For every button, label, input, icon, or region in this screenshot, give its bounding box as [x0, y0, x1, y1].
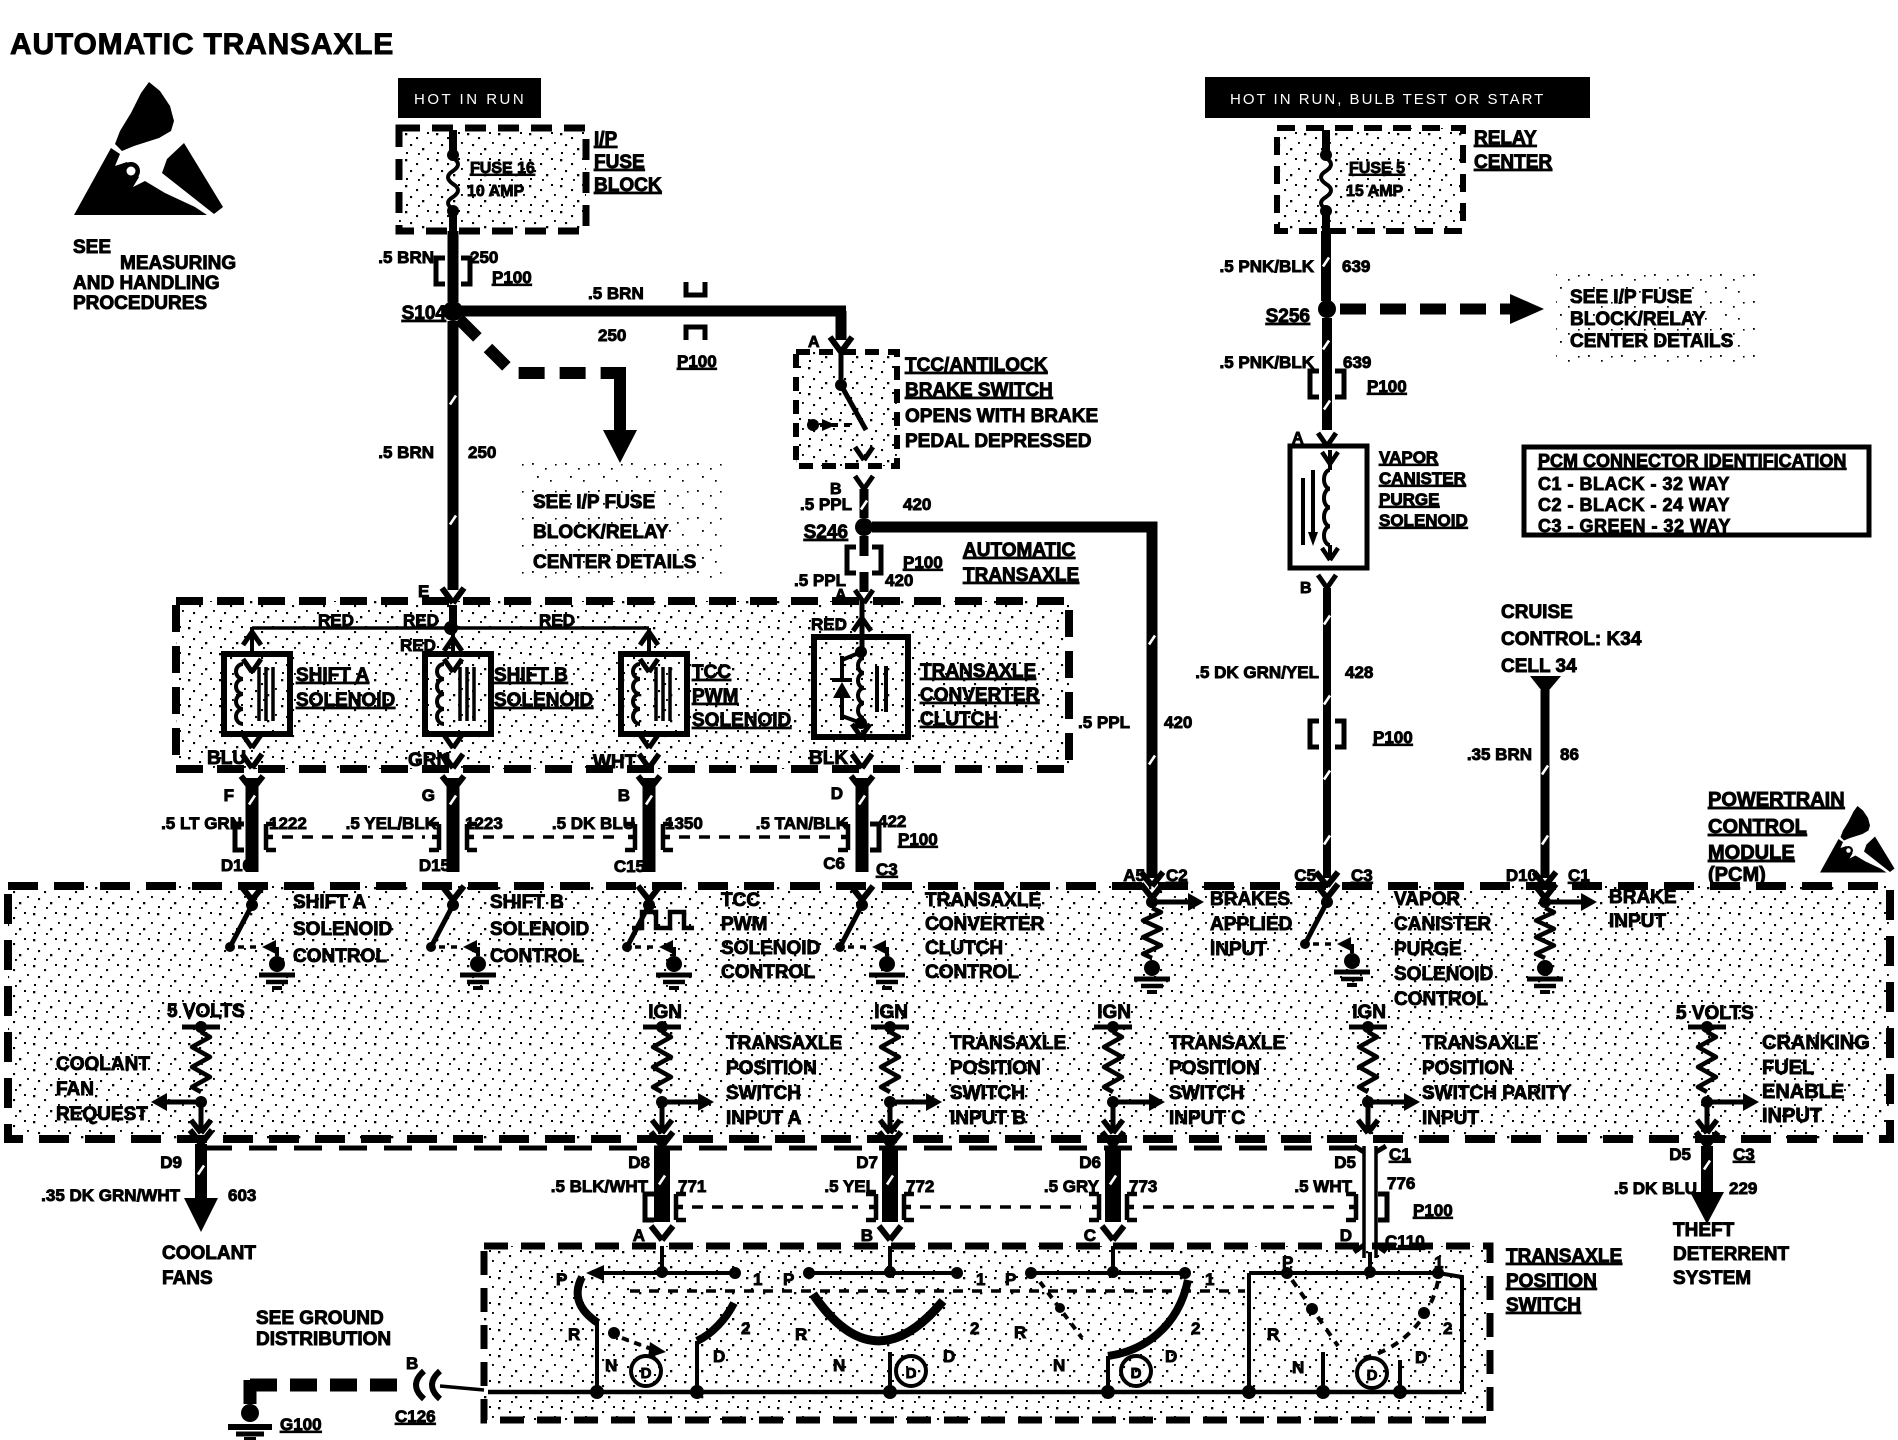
- svg-text:MEASURING: MEASURING: [120, 253, 236, 274]
- svg-text:TRANSAXLE: TRANSAXLE: [925, 890, 1041, 911]
- svg-text:OPENS WITH BRAKE: OPENS WITH BRAKE: [905, 406, 1098, 427]
- svg-text:CELL 34: CELL 34: [1501, 656, 1577, 677]
- svg-text:FUSE: FUSE: [594, 152, 645, 173]
- svg-text:PWM: PWM: [692, 686, 738, 707]
- svg-text:C1: C1: [1389, 1145, 1411, 1164]
- heavy dashed ground wire: [244, 1380, 257, 1404]
- svg-text:CONTROL: K34: CONTROL: K34: [1501, 629, 1642, 650]
- svg-text:1: 1: [1205, 1270, 1214, 1289]
- svg-text:.5 PNK/BLK: .5 PNK/BLK: [1220, 353, 1315, 372]
- svg-text:N: N: [1053, 1356, 1065, 1375]
- svg-text:603: 603: [228, 1186, 256, 1205]
- svg-text:SYSTEM: SYSTEM: [1673, 1268, 1751, 1289]
- svg-text:250: 250: [468, 443, 496, 462]
- svg-text:B: B: [1300, 580, 1312, 597]
- PCM connector identification table: [1524, 447, 1869, 535]
- svg-text:SWITCH: SWITCH: [1169, 1083, 1244, 1104]
- svg-text:N: N: [833, 1356, 845, 1375]
- svg-text:F: F: [224, 786, 234, 805]
- power label: HOT IN RUN: [398, 78, 541, 118]
- svg-text:D5: D5: [1669, 1145, 1691, 1164]
- PCM: brakes applied input: [1141, 884, 1163, 898]
- svg-text:.5 DK BLU: .5 DK BLU: [552, 814, 635, 833]
- svg-text:5 VOLTS: 5 VOLTS: [1676, 1003, 1754, 1024]
- svg-text:PCM CONNECTOR IDENTIFICATION: PCM CONNECTOR IDENTIFICATION: [1538, 451, 1846, 471]
- svg-text:SWITCH: SWITCH: [1506, 1295, 1581, 1316]
- scan artifacts: [1323, 258, 1329, 267]
- svg-text:CONTROL: CONTROL: [1708, 816, 1807, 838]
- svg-text:639: 639: [1343, 353, 1371, 372]
- svg-text:SWITCH: SWITCH: [950, 1083, 1025, 1104]
- ESD symbol small: [1820, 806, 1895, 873]
- svg-text:CANISTER: CANISTER: [1379, 469, 1466, 488]
- second dashed boundary line: [204, 1146, 1356, 1151]
- svg-text:SEE GROUND: SEE GROUND: [256, 1308, 384, 1329]
- svg-text:PWM: PWM: [721, 914, 767, 935]
- svg-text:P100: P100: [903, 553, 943, 572]
- svg-text:250: 250: [470, 248, 498, 267]
- svg-text:P100: P100: [492, 268, 532, 287]
- svg-text:FAN: FAN: [56, 1079, 94, 1100]
- svg-text:C15: C15: [614, 857, 645, 876]
- svg-text:10 AMP: 10 AMP: [467, 183, 525, 200]
- connector C126: [416, 1371, 424, 1399]
- svg-text:D: D: [1131, 1365, 1142, 1382]
- svg-text:AND HANDLING: AND HANDLING: [73, 273, 220, 294]
- svg-text:.35 BRN: .35 BRN: [1467, 745, 1532, 764]
- position switch contact set C: [1111, 1246, 1115, 1272]
- svg-text:P100: P100: [1367, 377, 1407, 396]
- svg-text:FANS: FANS: [162, 1268, 213, 1289]
- transaxle position switch box: [484, 1246, 1490, 1420]
- svg-text:D9: D9: [160, 1153, 182, 1172]
- svg-text:C: C: [1084, 1226, 1096, 1245]
- PCM: vapor canister purge solenoid control: [1316, 884, 1338, 898]
- svg-text:SOLENOID: SOLENOID: [1379, 511, 1468, 530]
- svg-text:428: 428: [1345, 663, 1373, 682]
- svg-text:CONVERTER: CONVERTER: [925, 914, 1045, 935]
- svg-text:C6: C6: [823, 854, 845, 873]
- svg-text:C1 - BLACK - 32 WAY: C1 - BLACK - 32 WAY: [1538, 474, 1730, 494]
- svg-text:D: D: [1165, 1347, 1177, 1366]
- svg-text:P: P: [1005, 1270, 1016, 1289]
- svg-text:VAPOR: VAPOR: [1379, 448, 1438, 467]
- svg-text:TCC/ANTILOCK: TCC/ANTILOCK: [905, 355, 1048, 376]
- svg-text:POWERTRAIN: POWERTRAIN: [1708, 789, 1845, 811]
- svg-text:INPUT B: INPUT B: [950, 1108, 1026, 1129]
- ESD warning symbol: [74, 82, 223, 215]
- svg-text:BRAKE SWITCH: BRAKE SWITCH: [905, 380, 1053, 401]
- svg-text:C126: C126: [395, 1407, 436, 1426]
- svg-text:APPLIED: APPLIED: [1210, 914, 1292, 935]
- svg-text:TRANSAXLE: TRANSAXLE: [920, 661, 1036, 682]
- svg-text:D5: D5: [1334, 1153, 1356, 1172]
- svg-text:SWITCH: SWITCH: [726, 1083, 801, 1104]
- svg-text:SOLENOID: SOLENOID: [692, 710, 791, 731]
- svg-text:D: D: [1340, 1226, 1352, 1245]
- svg-text:SHIFT A: SHIFT A: [293, 892, 366, 913]
- svg-text:INPUT: INPUT: [1762, 1105, 1822, 1127]
- svg-text:G100: G100: [280, 1415, 322, 1434]
- svg-text:PROCEDURES: PROCEDURES: [73, 293, 207, 314]
- svg-text:TRANSAXLE: TRANSAXLE: [1506, 1246, 1622, 1267]
- wire .5 PNK/BLK 639: [1321, 231, 1331, 301]
- svg-text:DETERRENT: DETERRENT: [1673, 1244, 1790, 1265]
- svg-text:MODULE: MODULE: [1708, 842, 1795, 864]
- svg-text:2: 2: [970, 1319, 979, 1338]
- splice S256: [1318, 300, 1336, 318]
- svg-text:CRANKING: CRANKING: [1762, 1032, 1870, 1054]
- svg-text:2: 2: [1443, 1319, 1452, 1338]
- svg-text:D: D: [1367, 1367, 1378, 1384]
- wire corner down to brake switch A: [836, 311, 847, 340]
- svg-text:2: 2: [1191, 1319, 1200, 1338]
- svg-text:CONTROL: CONTROL: [721, 962, 815, 983]
- svg-text:IGN: IGN: [648, 1002, 682, 1023]
- svg-text:HOT IN RUN: HOT IN RUN: [414, 91, 526, 108]
- relay center box: [1277, 128, 1463, 231]
- powertrain control module box: [8, 886, 1890, 1139]
- dashed arrow to see details note: [1340, 304, 1512, 315]
- svg-text:D7: D7: [856, 1153, 878, 1172]
- svg-text:1: 1: [1434, 1253, 1443, 1272]
- svg-text:BLK: BLK: [809, 748, 848, 769]
- svg-text:INPUT A: INPUT A: [726, 1108, 802, 1129]
- fuse 16, 10 amp: [449, 130, 457, 154]
- PCM: shift A solenoid control: [241, 886, 263, 900]
- svg-text:CANISTER: CANISTER: [1394, 914, 1491, 935]
- svg-text:COOLANT: COOLANT: [162, 1243, 256, 1264]
- svg-text:D6: D6: [1079, 1153, 1101, 1172]
- svg-text:TRANSAXLE: TRANSAXLE: [963, 565, 1079, 586]
- svg-text:S256: S256: [1266, 306, 1310, 327]
- svg-text:2: 2: [741, 1319, 750, 1338]
- svg-text:420: 420: [1164, 713, 1192, 732]
- svg-text:C3: C3: [1351, 866, 1373, 885]
- connector P100 inline: [436, 258, 445, 284]
- svg-text:CONVERTER: CONVERTER: [920, 685, 1040, 706]
- svg-text:REQUEST: REQUEST: [56, 1104, 148, 1125]
- svg-text:D15: D15: [419, 856, 450, 875]
- svg-text:B: B: [861, 1226, 873, 1245]
- brake switch contacts: [839, 352, 844, 380]
- svg-text:AUTOMATIC: AUTOMATIC: [963, 540, 1076, 561]
- svg-text:.5 DK BLU: .5 DK BLU: [1614, 1179, 1697, 1198]
- svg-text:D: D: [831, 784, 843, 803]
- svg-text:CONTROL: CONTROL: [293, 946, 387, 967]
- svg-text:CONTROL: CONTROL: [1394, 989, 1488, 1010]
- svg-text:IGN: IGN: [1352, 1002, 1386, 1023]
- svg-text:TRANSAXLE: TRANSAXLE: [1422, 1033, 1538, 1054]
- svg-text:N: N: [605, 1356, 617, 1375]
- svg-text:.5 PPL: .5 PPL: [1078, 713, 1130, 732]
- svg-text:C5: C5: [1294, 866, 1316, 885]
- switch common bus wire: [488, 1390, 1462, 1395]
- splice S246: [855, 518, 873, 536]
- svg-text:POSITION: POSITION: [1506, 1271, 1597, 1292]
- svg-text:BRAKES: BRAKES: [1210, 889, 1290, 910]
- svg-text:B: B: [618, 786, 630, 805]
- svg-text:BRAKE: BRAKE: [1609, 887, 1677, 908]
- svg-text:SEE: SEE: [73, 237, 111, 258]
- svg-text:R: R: [795, 1325, 807, 1344]
- svg-text:.5 BRN: .5 BRN: [588, 284, 644, 303]
- svg-text:INPUT: INPUT: [1210, 939, 1267, 960]
- svg-text:SOLENOID: SOLENOID: [1394, 964, 1493, 985]
- I/P fuse block box: [399, 128, 586, 231]
- svg-text:D10: D10: [1506, 866, 1537, 885]
- svg-text:CONTROL: CONTROL: [490, 946, 584, 967]
- svg-text:GRN: GRN: [408, 750, 450, 771]
- svg-text:P100: P100: [1413, 1201, 1453, 1220]
- svg-text:D: D: [641, 1365, 652, 1382]
- svg-text:RED: RED: [318, 611, 354, 630]
- svg-text:SOLENOID: SOLENOID: [721, 938, 820, 959]
- ground G100: [241, 1404, 259, 1422]
- svg-text:CONTROL: CONTROL: [925, 962, 1019, 983]
- svg-text:1: 1: [976, 1270, 985, 1289]
- splice S104: [443, 301, 463, 321]
- svg-text:A: A: [633, 1226, 645, 1245]
- wire .5 BRN 250 down to E: [448, 321, 459, 590]
- svg-text:D16: D16: [221, 856, 252, 875]
- svg-text:POSITION: POSITION: [950, 1058, 1041, 1079]
- solenoid body at x=252: [224, 654, 290, 734]
- wire .5 PNK/BLK 639 to vapor solenoid: [1322, 318, 1332, 430]
- svg-text:15 AMP: 15 AMP: [1346, 183, 1404, 200]
- svg-text:SOLENOID: SOLENOID: [490, 919, 589, 940]
- svg-text:P100: P100: [898, 830, 938, 849]
- svg-text:TCC: TCC: [721, 890, 760, 911]
- svg-text:.5 LT GRN: .5 LT GRN: [161, 814, 242, 833]
- svg-text:CLUTCH: CLUTCH: [925, 938, 1003, 959]
- svg-text:RED: RED: [811, 615, 847, 634]
- dashed wire to fuse details note: [459, 319, 608, 373]
- svg-text:R: R: [568, 1325, 580, 1344]
- PCM: TCC PWM solenoid control: [638, 886, 660, 900]
- svg-text:FUSE 5: FUSE 5: [1349, 160, 1405, 177]
- svg-text:IGN: IGN: [1097, 1002, 1131, 1023]
- svg-text:S104: S104: [402, 303, 447, 324]
- svg-text:D: D: [943, 1347, 955, 1366]
- svg-text:SHIFT B: SHIFT B: [490, 892, 564, 913]
- wire .5 BRN 250 horizontal: [458, 306, 846, 317]
- svg-text:.35 DK GRN/WHT: .35 DK GRN/WHT: [41, 1186, 180, 1205]
- svg-text:776: 776: [1387, 1174, 1415, 1193]
- wire .5 BRN 250 from fuse: [448, 231, 459, 302]
- svg-text:CENTER: CENTER: [1474, 152, 1552, 173]
- svg-text:.5 BLK/WHT: .5 BLK/WHT: [551, 1177, 649, 1196]
- svg-text:.5 WHT: .5 WHT: [1294, 1177, 1352, 1196]
- svg-text:POSITION: POSITION: [1169, 1058, 1260, 1079]
- svg-text:POSITION: POSITION: [1422, 1058, 1513, 1079]
- svg-text:PURGE: PURGE: [1394, 939, 1462, 960]
- svg-text:SOLENOID: SOLENOID: [296, 690, 395, 711]
- svg-text:420: 420: [903, 495, 931, 514]
- svg-text:SWITCH PARITY: SWITCH PARITY: [1422, 1083, 1571, 1104]
- svg-text:.5 PNK/BLK: .5 PNK/BLK: [1220, 257, 1315, 276]
- svg-text:R: R: [1014, 1323, 1026, 1342]
- svg-text:PURGE: PURGE: [1379, 490, 1439, 509]
- svg-text:SHIFT A: SHIFT A: [296, 665, 369, 686]
- svg-text:RED: RED: [403, 611, 439, 630]
- svg-text:.5 TAN/BLK: .5 TAN/BLK: [756, 814, 849, 833]
- position switch contact set D: [1368, 1252, 1372, 1272]
- svg-text:.5 BRN: .5 BRN: [378, 443, 434, 462]
- svg-text:PEDAL DEPRESSED: PEDAL DEPRESSED: [905, 431, 1092, 452]
- svg-text:SOLENOID: SOLENOID: [494, 690, 593, 711]
- svg-text:C3 - GREEN - 32 WAY: C3 - GREEN - 32 WAY: [1538, 516, 1731, 536]
- svg-text:A: A: [808, 334, 820, 351]
- svg-text:D: D: [906, 1365, 917, 1382]
- svg-text:AUTOMATIC TRANSAXLE: AUTOMATIC TRANSAXLE: [10, 28, 394, 61]
- svg-text:G: G: [422, 786, 435, 805]
- svg-text:WHT: WHT: [593, 752, 637, 773]
- svg-text:INPUT: INPUT: [1609, 911, 1666, 932]
- PCM: shift B solenoid control: [442, 886, 464, 900]
- svg-text:N: N: [1292, 1358, 1304, 1377]
- svg-text:C2: C2: [1166, 866, 1188, 885]
- svg-text:D: D: [713, 1347, 725, 1366]
- fuse 5, 15 amp: [1322, 130, 1330, 154]
- svg-text:.5 DK GRN/YEL: .5 DK GRN/YEL: [1195, 663, 1319, 682]
- svg-text:HOT IN RUN, BULB TEST OR STA: HOT IN RUN, BULB TEST OR START: [1230, 91, 1545, 108]
- transaxle converter clutch solenoid: [814, 637, 908, 737]
- svg-text:.5 PPL: .5 PPL: [800, 495, 852, 514]
- svg-text:SHIFT B: SHIFT B: [494, 665, 568, 686]
- svg-text:COOLANT: COOLANT: [56, 1054, 150, 1075]
- svg-text:422: 422: [878, 812, 906, 831]
- svg-text:SOLENOID: SOLENOID: [293, 919, 392, 940]
- svg-text:86: 86: [1560, 745, 1579, 764]
- wiper linkage dashed line: [630, 1289, 1245, 1293]
- svg-text:FUEL: FUEL: [1762, 1057, 1814, 1079]
- svg-text:P: P: [1282, 1253, 1293, 1272]
- svg-text:P100: P100: [677, 352, 717, 371]
- svg-text:5 VOLTS: 5 VOLTS: [167, 1001, 245, 1022]
- svg-text:VAPOR: VAPOR: [1394, 889, 1460, 910]
- svg-text:TRANSAXLE: TRANSAXLE: [950, 1033, 1066, 1054]
- TCC/antilock brake switch box: [796, 352, 897, 466]
- svg-text:420: 420: [885, 571, 913, 590]
- automatic transaxle dashed box: [176, 601, 1069, 769]
- svg-text:B: B: [406, 1354, 418, 1373]
- wire S246 down to transaxle A: [860, 536, 869, 556]
- svg-text:ENABLE: ENABLE: [1762, 1081, 1844, 1103]
- svg-text:CRUISE: CRUISE: [1501, 602, 1573, 623]
- red feed wire inside: [449, 605, 457, 628]
- svg-text:D8: D8: [628, 1153, 650, 1172]
- svg-text:INPUT C: INPUT C: [1169, 1108, 1245, 1129]
- svg-text:C3: C3: [1733, 1145, 1755, 1164]
- svg-text:S246: S246: [804, 522, 848, 543]
- svg-text:P: P: [783, 1270, 794, 1289]
- svg-text:D: D: [1415, 1348, 1427, 1367]
- vapor canister purge solenoid: [1290, 446, 1367, 568]
- svg-text:CLUTCH: CLUTCH: [920, 709, 998, 730]
- PCM: transaxle converter clutch control: [851, 886, 873, 900]
- svg-text:THEFT: THEFT: [1673, 1220, 1735, 1241]
- svg-text:250: 250: [598, 326, 626, 345]
- power label: HOT IN RUN, BULB TEST OR START: [1205, 77, 1590, 118]
- svg-text:C3: C3: [876, 860, 898, 879]
- svg-text:C2 - BLACK - 24 WAY: C2 - BLACK - 24 WAY: [1538, 495, 1730, 515]
- solenoid body at x=649: [621, 654, 687, 734]
- svg-text:INPUT: INPUT: [1422, 1108, 1479, 1129]
- svg-text:.5 BRN: .5 BRN: [378, 248, 434, 267]
- svg-text:FUSE 16: FUSE 16: [470, 160, 535, 177]
- svg-text:POSITION: POSITION: [726, 1058, 817, 1079]
- svg-text:RELAY: RELAY: [1474, 128, 1537, 149]
- position switch contact set B: [888, 1246, 892, 1272]
- svg-text:BLU: BLU: [207, 748, 246, 769]
- svg-text:BLOCK: BLOCK: [594, 175, 662, 196]
- svg-text:RED: RED: [539, 611, 575, 630]
- svg-text:C1: C1: [1568, 866, 1590, 885]
- solenoid body at x=453: [425, 654, 491, 734]
- svg-text:1: 1: [753, 1270, 762, 1289]
- svg-text:229: 229: [1729, 1179, 1757, 1198]
- svg-text:TRANSAXLE: TRANSAXLE: [726, 1033, 842, 1054]
- svg-text:P100: P100: [1373, 728, 1413, 747]
- svg-text:639: 639: [1342, 257, 1370, 276]
- svg-text:.5 YEL/BLK: .5 YEL/BLK: [346, 814, 438, 833]
- PCM: brake input: [1534, 884, 1556, 898]
- svg-text:I/P: I/P: [594, 129, 618, 150]
- wire S246 branch right to PCM A5: [872, 527, 1152, 878]
- svg-text:P: P: [556, 1270, 567, 1289]
- position switch contact set A: [660, 1246, 664, 1272]
- svg-text:R: R: [1267, 1325, 1279, 1344]
- svg-text:DISTRIBUTION: DISTRIBUTION: [256, 1329, 391, 1350]
- svg-text:TCC: TCC: [692, 662, 731, 683]
- svg-text:TRANSAXLE: TRANSAXLE: [1169, 1033, 1285, 1054]
- svg-text:IGN: IGN: [874, 1002, 908, 1023]
